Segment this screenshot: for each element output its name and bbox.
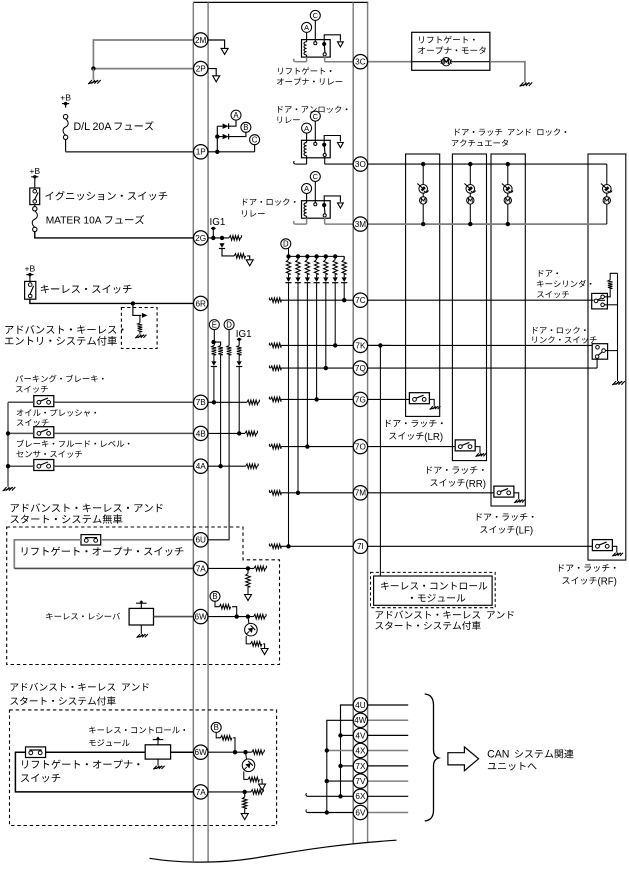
svg-text:7B: 7B (196, 398, 207, 407)
wire LED arrow (263, 644, 264, 648)
wire parking right (54, 401, 194, 403)
diode D-B (223, 134, 229, 139)
wire 6X right (368, 795, 409, 797)
wire 4W left (327, 720, 353, 750)
wire to B (229, 132, 246, 136)
svg-text:4A: 4A (196, 462, 207, 471)
wire 7G row right (368, 398, 410, 400)
svg-text:7G: 7G (355, 395, 366, 404)
ground G6 (613, 381, 616, 385)
wire 4V left (341, 734, 354, 736)
keyless control module inner box (374, 576, 493, 605)
wire 6U row (101, 539, 194, 541)
wire 4U right (368, 704, 409, 706)
clutch LR (419, 185, 428, 194)
wire RR to ground (475, 447, 480, 454)
resistor RD6 (297, 256, 299, 259)
label latch RR (427, 466, 484, 474)
wire 4X right (368, 750, 409, 752)
connector pin 7A (left) (194, 561, 208, 575)
junction 6X (338, 794, 342, 798)
motor M1 (442, 58, 450, 66)
node A (231, 110, 241, 120)
wire RE2 to 4A (220, 355, 222, 466)
junction 4V (338, 733, 342, 737)
wire 7M row (281, 492, 353, 494)
label liftgate opener relay (278, 67, 331, 74)
label with system line2 (10, 696, 115, 705)
connector pin 2P (left) (194, 61, 208, 75)
svg-text:E: E (212, 320, 217, 329)
wire B vertical (326, 751, 328, 813)
diode E (211, 361, 216, 366)
junction 7M (296, 491, 300, 495)
svg-text:4B: 4B (196, 429, 207, 438)
wire 2M row (93, 40, 193, 69)
svg-text:(LR): (LR) (424, 432, 443, 443)
wire to A (229, 120, 236, 126)
fuse D/L 20A (63, 115, 67, 119)
node D (281, 239, 291, 249)
svg-text:C: C (313, 11, 319, 20)
junction 3O-LR (421, 162, 425, 166)
actuator box RF (588, 154, 626, 560)
wire B to resistor (215, 601, 219, 606)
label keyless control module (381, 582, 487, 590)
resistor RB2 (221, 736, 232, 741)
connector pin 6X (right) (353, 789, 367, 803)
label door unlock relay (278, 106, 347, 113)
diode 2G down (219, 243, 224, 248)
wire 7V left (327, 780, 353, 782)
ground G-6R (136, 335, 139, 338)
junction 4X (325, 748, 329, 752)
label door key cylinder switch (539, 270, 558, 277)
resistor RD4 (316, 256, 318, 259)
liftgate opener switch SW4 (26, 747, 46, 758)
dashed box advanced keyless entry (121, 308, 157, 349)
svg-text:4U: 4U (355, 701, 366, 710)
liftgate opener motor box (412, 32, 490, 70)
label latch LF (477, 513, 534, 521)
svg-text:+B: +B (60, 93, 71, 103)
oil pressure switch (34, 427, 54, 438)
connector pin 4X (right) (353, 743, 367, 757)
connector pin 6U (left) (194, 533, 208, 547)
D header corner (343, 256, 345, 259)
right connector strip line outer (367, 2, 369, 843)
wire 4V right (368, 734, 409, 736)
relay door unlock (302, 123, 312, 133)
wire RD6 to row (297, 283, 299, 493)
junction 7A2 (243, 790, 247, 794)
wire 4B row (208, 432, 245, 434)
left connector strip line inner (207, 2, 209, 862)
junction 3O-RR (468, 162, 472, 166)
wire RF to ground (612, 546, 616, 552)
junction 7X (338, 764, 342, 768)
clutch RF (603, 185, 612, 194)
vertical ground wire right (617, 273, 619, 381)
junction 7I (286, 544, 290, 548)
wire 2G right (208, 237, 229, 239)
wire RD1 to row (343, 283, 345, 301)
clutch LF (504, 185, 513, 194)
wire LED out (246, 636, 250, 644)
LED indicator 2 (242, 759, 255, 772)
wire 7I row right (368, 545, 593, 547)
wire 7G row (281, 398, 353, 400)
wire diode to resistor (222, 249, 234, 256)
wire 7Q to link switch (368, 367, 597, 369)
wire 7K to link switch (368, 344, 593, 346)
dashed box with system (10, 710, 277, 826)
svg-text:D: D (283, 240, 289, 249)
wire parking left (8, 401, 34, 403)
dashed box without system (7, 527, 280, 665)
connector pin 7I (right) (353, 539, 367, 553)
svg-text:MATER 10A: MATER 10A (46, 216, 102, 227)
wire 2P right stub (208, 69, 216, 76)
junction D6 (333, 254, 337, 258)
wire 7A2 right (208, 791, 251, 793)
svg-text:7Q: 7Q (355, 364, 366, 373)
resistor 7A (246, 573, 251, 587)
connector pin 4V (right) (353, 728, 367, 742)
wire 4U left (341, 705, 354, 735)
connector pin 1P (left) (194, 145, 208, 159)
junction 2G-2 (220, 236, 224, 240)
diode D2 (334, 274, 336, 277)
junction 6W2-1 (233, 750, 237, 754)
label with system line1 (11, 683, 149, 691)
svg-text:+B: +B (25, 264, 36, 274)
wire RE1 to diode (213, 355, 215, 361)
resistor 2G-2 (234, 254, 245, 259)
wire module to 6W2 (171, 751, 194, 753)
svg-text:CAN: CAN (487, 749, 509, 761)
wire 2M right stub (208, 40, 225, 48)
svg-text:4X: 4X (355, 746, 366, 755)
clutch RR (466, 185, 475, 194)
actuator RF vertical (606, 164, 608, 184)
label liftgate opener switch 2 (22, 760, 139, 769)
wire RD4 to row (316, 283, 318, 400)
junction 7Q (324, 366, 328, 370)
wire 7B row (208, 401, 247, 403)
antenna (receiver) (140, 603, 142, 608)
diode D5 (306, 274, 308, 277)
wire to ground (92, 69, 94, 80)
svg-text:6U: 6U (195, 536, 206, 545)
wire 7K right (368, 344, 391, 346)
svg-text:B: B (214, 723, 219, 732)
svg-text:A: A (304, 184, 309, 193)
IG1 feed symbol (211, 227, 216, 229)
ground G-LR (430, 406, 433, 409)
wire to arrow 7A2 (244, 809, 246, 814)
svg-text:C: C (313, 112, 319, 121)
svg-text:IG1: IG1 (210, 217, 226, 228)
junction 7V (325, 779, 329, 783)
junction 7G (314, 397, 318, 401)
resistor RE1 (212, 346, 217, 355)
wire 7A right (208, 567, 254, 569)
wire LED2 arrow (261, 779, 262, 783)
label brake fluid switch (17, 440, 130, 448)
svg-text:D: D (226, 320, 232, 329)
svg-text:7M: 7M (355, 489, 367, 498)
wire to C (254, 145, 256, 152)
connector pin 7B (left) (194, 395, 208, 409)
junction 7K (333, 343, 337, 347)
wire RD7 to row (288, 283, 290, 547)
label keyless control module 2 (89, 727, 185, 734)
resistor RD3 (325, 256, 327, 259)
label ignition switch (45, 191, 167, 200)
wire LED2 out (244, 772, 248, 780)
label door lock link switch (533, 327, 586, 334)
svg-text:6W: 6W (195, 748, 208, 757)
junction 6V (325, 810, 329, 814)
resistor 7G left (269, 397, 270, 400)
resistor key cylinder (608, 280, 613, 289)
motor LR (420, 197, 427, 204)
wire 7O row right (368, 446, 456, 448)
label actuators (455, 128, 566, 135)
svg-text:2M: 2M (195, 36, 207, 45)
connector pin 7A (left) (194, 785, 208, 799)
dashed box keyless module (371, 572, 496, 607)
arrow to other page (LED2) (259, 784, 266, 790)
wire 7X left (341, 765, 354, 767)
junction 3O-LF (506, 162, 510, 166)
wire to ground (139, 332, 141, 335)
connector pin 4B (left) (194, 426, 208, 440)
wire 7C to key cylinder (368, 299, 594, 301)
junction 4A (218, 464, 222, 468)
wire 6V right (368, 812, 409, 814)
label keyless switch (41, 285, 132, 294)
wire 7K row (281, 344, 353, 346)
wire to resistor (139, 315, 141, 322)
wire +B to keyless switch (29, 279, 31, 282)
actuator RR vertical (469, 164, 471, 184)
actuator LF vertical (507, 164, 509, 184)
key cylinder switch box (592, 293, 608, 309)
junction 2M/2P (91, 66, 95, 70)
actuator box LR (406, 154, 440, 416)
svg-text:+B: +B (29, 166, 40, 176)
connector pin 7C (right) (353, 293, 367, 307)
LED indicator (245, 623, 258, 636)
svg-text:7I: 7I (357, 542, 364, 551)
door latch switch RF (592, 540, 612, 551)
motor LF (504, 197, 511, 204)
actuator LR vertical (422, 164, 424, 184)
ground G3 (137, 634, 140, 637)
label advanced keyless entry line2 (5, 336, 117, 345)
wire 2P row (93, 68, 193, 70)
wire 7O row (281, 446, 353, 448)
wire 7V right (368, 780, 409, 782)
relay liftgate opener (coil+contact) (302, 22, 312, 32)
wire SW4 to 7A2 (15, 752, 193, 792)
junction 3M-LF (506, 222, 510, 226)
svg-text:B: B (243, 123, 248, 132)
left connector strip line outer (192, 2, 194, 861)
resistor 7O left (269, 444, 270, 447)
actuator box LF (491, 154, 525, 506)
link switch contacts (596, 346, 600, 350)
svg-text:6W: 6W (195, 613, 208, 622)
relay door lock (302, 184, 312, 194)
wire ground bus left (7, 402, 9, 487)
connector pin 7Q (right) (353, 361, 367, 375)
resistor RB1 (219, 604, 230, 609)
label liftgate motor (419, 36, 475, 44)
wire 6W2 to LED2 (246, 752, 247, 759)
resistor RD7 (288, 256, 290, 259)
wire A vertical (340, 735, 342, 796)
wire to arrow 7A (247, 587, 249, 594)
arrow to other page (2P) (213, 76, 220, 82)
door lock link switch box (592, 344, 607, 360)
hook 6V (306, 810, 308, 813)
wire 3O row (368, 163, 607, 165)
node C (250, 135, 260, 145)
junction 7B (212, 400, 216, 404)
module outline top (193, 1, 368, 3)
wire D to header (288, 248, 290, 256)
wire fuse to 2G (35, 231, 194, 238)
wire 1P row (193, 151, 254, 153)
resistor 7A2 (242, 797, 247, 809)
connector pin 6W (left) (194, 609, 208, 623)
svg-text:(LF): (LF) (515, 526, 533, 537)
ground G5 (520, 82, 523, 86)
resistor R-6R (138, 323, 143, 332)
diode D3 (325, 274, 327, 277)
wire +B to switch (34, 181, 36, 188)
diode D7 (288, 274, 290, 277)
svg-text:6V: 6V (355, 808, 366, 817)
junction 6W-1 (235, 614, 239, 618)
wire keycyl down right (604, 304, 617, 306)
label latch RF (559, 564, 616, 572)
svg-text:7A: 7A (196, 564, 207, 573)
svg-text:2P: 2P (196, 65, 207, 74)
label adv keyless start line2 (375, 621, 480, 630)
junction D5 (324, 254, 328, 258)
ground G-RF (613, 553, 616, 556)
ground stem receiver (140, 625, 142, 634)
wire 3M row (368, 223, 607, 225)
diode D6 (297, 274, 299, 277)
resistor 6W2 pull (252, 750, 265, 755)
wire keycyl up (604, 289, 610, 297)
resistor 7B (247, 400, 260, 405)
wire 7Q row (281, 367, 353, 369)
diode D4 (316, 274, 318, 277)
svg-text:7K: 7K (355, 341, 366, 350)
wire RD5 to row (306, 283, 308, 447)
brake fluid level switch (34, 460, 54, 471)
wire link right (605, 350, 617, 352)
wire oil right (54, 432, 194, 434)
keyless switch SW2 (25, 281, 36, 299)
connector pin 7O (right) (353, 439, 367, 453)
resistor RD (227, 346, 232, 355)
wire SW3 to 7A (14, 540, 81, 569)
wire RB1 to 6W (232, 607, 237, 617)
svg-text:(RR): (RR) (466, 479, 486, 490)
wire 6W to LED (248, 617, 249, 624)
label without system line1 (11, 503, 163, 512)
junction 2G-1 (211, 236, 215, 240)
svg-text:7C: 7C (355, 296, 366, 305)
ground G2 (3, 487, 6, 491)
svg-text:A: A (304, 124, 309, 133)
motor RR (467, 197, 474, 204)
junction 6W-2 (246, 614, 250, 618)
cut curve (150, 840, 397, 862)
connector pin 7M (right) (353, 486, 367, 500)
connector pin 4A (left) (194, 459, 208, 473)
node B (241, 122, 251, 132)
ground G4 (154, 766, 157, 769)
wire 7A2 down (244, 792, 246, 797)
svg-text:7X: 7X (355, 762, 366, 771)
connector pin 7X (right) (353, 759, 367, 773)
actuator box RR (452, 154, 486, 461)
right connector strip line inner (352, 2, 354, 844)
wire SW4 to module (46, 751, 146, 753)
wire keycyl top (610, 273, 617, 280)
junction E branch (211, 340, 215, 344)
arrow to other page (7A) (245, 595, 252, 601)
connector pin 4U (right) (353, 698, 367, 712)
wire 3C to motor box (368, 61, 412, 63)
label parking brake switch (16, 375, 104, 383)
svg-text:C: C (252, 136, 258, 145)
liftgate opener switch SW3 (81, 535, 101, 545)
label latch LR (386, 420, 443, 428)
svg-text:4W: 4W (354, 716, 367, 725)
diode D1 (343, 274, 345, 277)
junction D2 (296, 254, 300, 258)
D header wire (289, 255, 345, 257)
wire RD2 to row (334, 283, 336, 346)
motor RF (603, 197, 610, 204)
junction gnd 4A (6, 464, 10, 468)
wire fluid right (54, 465, 194, 467)
hook 6X (306, 793, 308, 796)
resistor RIG1 (237, 346, 242, 355)
svg-text:B: B (212, 592, 217, 601)
connector pin 3M (right) (353, 217, 367, 231)
junction 7A (246, 566, 250, 570)
svg-text:7O: 7O (355, 443, 366, 452)
svg-text:6X: 6X (355, 792, 366, 801)
wire into box (133, 303, 141, 315)
svg-text:(RF): (RF) (598, 577, 617, 588)
label keyless receiver (46, 613, 120, 620)
node D (left) (224, 320, 234, 330)
wire 6W2 right (208, 751, 252, 753)
ground G1 (89, 80, 92, 84)
wire RD3 to row (325, 283, 327, 368)
